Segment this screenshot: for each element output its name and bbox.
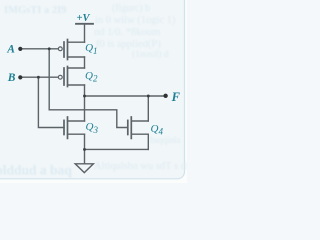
svg-text:(figurc) b: (figurc) b xyxy=(112,3,150,14)
bleed-through ghost text xyxy=(0,3,193,178)
input B wire xyxy=(20,76,58,78)
wire: Q3 source to ground rail xyxy=(84,134,86,149)
terminal dot A xyxy=(18,47,22,51)
wire: Q1 drain to Q2 source xyxy=(84,57,86,68)
svg-text:+V: +V xyxy=(77,13,91,24)
transistor Q4 (NMOS) xyxy=(128,117,149,138)
wire: ground junction to ground symbol xyxy=(84,149,86,163)
terminal dot B xyxy=(18,75,22,79)
junction dot ground xyxy=(83,148,86,151)
wire: Q4 drain up to output wire xyxy=(147,96,149,121)
transistor Q2 (PMOS) xyxy=(58,67,84,87)
junction dot output node xyxy=(83,95,86,98)
transistor Q1 (PMOS) xyxy=(58,40,84,60)
paper background (page outside panel) xyxy=(0,0,187,183)
wire: B branch down to Q3 gate xyxy=(38,77,64,127)
ground symbol xyxy=(75,164,93,173)
svg-text:IMGsTI a 2I9: IMGsTI a 2I9 xyxy=(4,5,66,16)
wire: +V to Q1 source xyxy=(84,25,86,43)
svg-text:olddud a baq: olddud a baq xyxy=(0,163,72,178)
wire: Q4 source down to ground rail xyxy=(147,134,149,149)
+V supply bar xyxy=(76,23,93,25)
junction dot B branch xyxy=(37,76,40,79)
output wire to F xyxy=(85,95,166,97)
svg-text:Altiqulsba wu sdT s dis: Altiqulsba wu sdT s dis xyxy=(94,161,187,172)
transistor Q3 (NMOS) xyxy=(64,117,85,138)
wire: output node down to Q3 drain xyxy=(84,96,86,121)
junction dot output to Q4 xyxy=(147,95,150,98)
terminal dot F xyxy=(163,94,167,98)
svg-text:nd 1/0. *8koum: nd 1/0. *8koum xyxy=(94,27,160,38)
svg-text:in 0 wilw (1ogic 1): in 0 wilw (1ogic 1) xyxy=(95,15,176,26)
tinted panel xyxy=(0,0,185,179)
svg-text:f0 is applied(P): f0 is applied(P) xyxy=(96,39,161,50)
svg-text:A: A xyxy=(6,43,15,55)
svg-text:B: B xyxy=(7,72,16,84)
junction dot A branch xyxy=(48,47,51,50)
wire: A branch down xyxy=(49,49,128,128)
ground rail xyxy=(85,148,149,150)
svg-text:bsqqinla: bsqqinla xyxy=(150,135,181,145)
input A wire xyxy=(20,48,58,50)
svg-text:(1nusil) d: (1nusil) d xyxy=(132,49,169,60)
svg-text:F: F xyxy=(171,90,181,104)
wire: Q2 drain to output node xyxy=(84,85,86,96)
